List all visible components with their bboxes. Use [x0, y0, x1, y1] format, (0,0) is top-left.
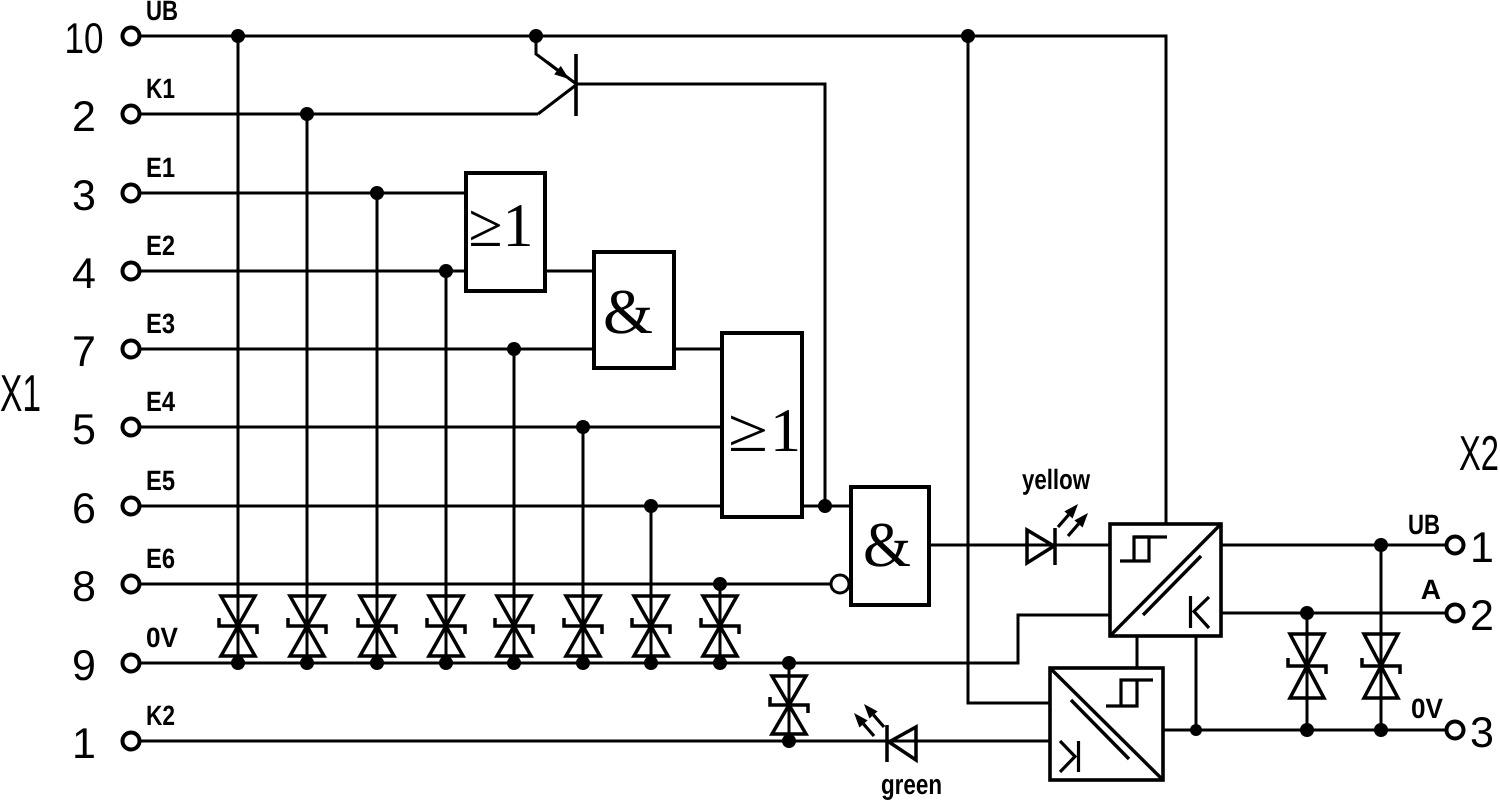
terminal X2-3: [1447, 709, 1494, 757]
junction UB column tap: [231, 29, 245, 43]
terminal X1-7 (pin 7): [72, 328, 139, 376]
svg-text:green: green: [881, 769, 942, 800]
wire column E1 down to suppressor: [376, 193, 379, 663]
wire U1 bottom right to 0V out: [1195, 636, 1198, 730]
OR gate G1 (>=1): [466, 173, 545, 291]
svg-text:E5: E5: [146, 465, 175, 496]
wire E1 (pin3 to G1): [140, 192, 466, 195]
terminal X1-10 (pin 10): [65, 15, 140, 63]
junction D10 top at A line: [1300, 606, 1314, 620]
junction D9 top at 0V: [782, 656, 796, 670]
wire column E3 down to suppressor: [513, 349, 516, 663]
svg-text:yellow: yellow: [1022, 464, 1090, 495]
suppressor diode D9 (0V to K2): [770, 676, 808, 734]
suppressor diode D7 (E5 to 0V): [632, 596, 670, 656]
terminal X1-1 (pin 1): [72, 720, 139, 768]
svg-text:E4: E4: [146, 386, 175, 417]
junction D10 bottom at 0V: [1300, 723, 1314, 737]
junction UB line A tap: [961, 29, 975, 43]
junction D8 at 0V rail: [713, 656, 727, 670]
wire Q1 base to gate G3 output: [576, 84, 825, 506]
svg-text:&: &: [603, 276, 653, 347]
terminal X1-5 (pin 5): [72, 406, 139, 454]
junction D9 bottom at K2: [782, 734, 796, 748]
svg-text:10: 10: [65, 15, 104, 63]
junction E3 column tap: [507, 342, 521, 356]
LED yellow: [1027, 504, 1088, 565]
svg-text:2: 2: [1470, 592, 1494, 640]
svg-text:6: 6: [72, 485, 96, 533]
junction K1 column tap: [300, 107, 314, 121]
wire D10 vertical (A to 0V): [1306, 613, 1309, 730]
terminal X1-6 (pin 6): [72, 485, 139, 533]
wire column E2 down to suppressor: [445, 271, 448, 663]
svg-text:≥1: ≥1: [468, 192, 533, 260]
svg-text:1: 1: [770, 397, 801, 465]
wire 0V rail (pin9 to U1 lower-left input): [140, 615, 1110, 663]
wire E3 (pin7 to G2): [140, 348, 594, 351]
wire G4 output to U1: [929, 544, 1110, 547]
junction D1 at 0V rail: [231, 656, 245, 670]
svg-text:4: 4: [72, 250, 96, 298]
junction E1 column tap: [370, 186, 384, 200]
junction D11 bottom at 0V: [1374, 723, 1388, 737]
wire D9 vertical (0V to K2): [788, 663, 791, 741]
AND gate G2 (&amp;): [594, 252, 674, 368]
junction D6 at 0V rail: [576, 656, 590, 670]
junction D11 top at UB line: [1374, 538, 1388, 552]
terminal X2-2: [1447, 592, 1494, 640]
wire D11 vertical (UB to 0V): [1380, 545, 1383, 730]
svg-text:X2: X2: [1459, 427, 1499, 481]
svg-text:2: 2: [72, 93, 96, 141]
wire E4 (pin5 to G3): [140, 426, 722, 429]
terminal X1-2 (pin 2): [72, 93, 139, 141]
junction E6 column tap: [713, 577, 727, 591]
svg-text:E1: E1: [146, 152, 175, 183]
junction D2 at 0V rail: [300, 656, 314, 670]
svg-text:3: 3: [1470, 709, 1494, 757]
terminal X1-4 (pin 4): [72, 250, 139, 298]
svg-text:&: &: [863, 509, 911, 580]
svg-text:7: 7: [72, 328, 96, 376]
coupler U1 (Schmitt trigger driver): [1110, 524, 1221, 636]
wire G1 output to G2: [545, 270, 594, 273]
terminal X1-9 (pin 9): [72, 642, 139, 690]
wire U1 out UB to X2-1: [1221, 544, 1447, 547]
suppressor diode D2 (K1 to 0V): [288, 596, 326, 656]
junction D4 at 0V rail: [439, 656, 453, 670]
wire column E6 down to suppressor: [719, 584, 722, 663]
wire 0V out (U2 to X2-3): [1163, 729, 1447, 732]
svg-text:≥: ≥: [728, 397, 768, 465]
svg-text:0V: 0V: [146, 622, 178, 653]
svg-text:5: 5: [72, 406, 96, 454]
wire E2 (pin4 to G1): [140, 270, 466, 273]
wire U1 bottom to U2 top: [1136, 636, 1139, 668]
wire U1 out A to X2-2: [1221, 612, 1447, 615]
transistor Q1 (PNP): [536, 36, 576, 116]
svg-text:UB: UB: [1408, 509, 1440, 540]
coupler U2 (Schmitt trigger driver, green channel): [1050, 668, 1163, 780]
suppressor diode D6 (E4 to 0V): [564, 596, 602, 656]
suppressor diode D8 (E6 to 0V): [701, 596, 739, 656]
junction 0V out at U1 drop: [1190, 724, 1202, 736]
LED green: [854, 704, 916, 762]
wire UB branch down to U2 (line A): [968, 36, 1050, 703]
svg-text:K2: K2: [146, 700, 175, 731]
svg-text:1: 1: [1470, 524, 1494, 572]
wire UB rail (pin10 to U1 top, corner at x=1166): [140, 36, 1166, 524]
junction E4 column tap: [576, 420, 590, 434]
junction D5 at 0V rail: [507, 656, 521, 670]
svg-text:E3: E3: [146, 308, 175, 339]
svg-text:X1: X1: [0, 365, 41, 423]
wire E6 (pin8 to G4 bubble): [140, 583, 831, 586]
svg-text:0V: 0V: [1411, 693, 1443, 724]
wire G3 output to G4: [801, 505, 851, 508]
wire K2 (pin1 to U2): [140, 740, 1050, 743]
wire column UB down to suppressor: [237, 36, 240, 663]
svg-text:K1: K1: [146, 73, 175, 104]
terminal X1-8 (pin 8): [72, 563, 139, 611]
svg-text:A: A: [1421, 574, 1441, 605]
wire G2 output to G3: [674, 348, 722, 351]
svg-text:1: 1: [72, 720, 96, 768]
junction D7 at 0V rail: [644, 656, 658, 670]
OR gate G3 (>=1): [722, 333, 802, 517]
wire E5 (pin6 to G3): [140, 505, 722, 508]
wire column K1 down to suppressor: [306, 114, 309, 663]
inverter bubble at G4 input E6: [831, 575, 849, 593]
wire column E4 down to suppressor: [582, 427, 585, 663]
suppressor diode D1 (UB to 0V): [219, 596, 257, 656]
AND gate G4 (&amp;): [851, 487, 929, 605]
junction UB at Q1 emitter: [529, 29, 543, 43]
suppressor diode D5 (E3 to 0V): [495, 596, 533, 656]
suppressor diode D4 (E2 to 0V): [427, 596, 465, 656]
svg-text:8: 8: [72, 563, 96, 611]
suppressor diode D11 (UB to 0V): [1362, 634, 1400, 698]
terminal X1-3 (pin 3): [72, 172, 139, 220]
svg-text:9: 9: [72, 642, 96, 690]
svg-text:UB: UB: [146, 0, 178, 26]
suppressor diode D3 (E1 to 0V): [358, 596, 396, 656]
svg-text:E2: E2: [146, 230, 175, 261]
junction E5 column tap: [644, 499, 658, 513]
junction D3 at 0V rail: [370, 656, 384, 670]
wire column E5 down to suppressor: [650, 506, 653, 663]
terminal X2-1: [1447, 524, 1494, 572]
junction E2 column tap: [439, 264, 453, 278]
svg-text:3: 3: [72, 172, 96, 220]
svg-text:E6: E6: [146, 543, 175, 574]
suppressor diode D10 (A to 0V): [1288, 634, 1326, 698]
wire K1 (pin2 to Q1 collector): [140, 113, 538, 116]
junction G3 output / Q1 base tap: [818, 499, 832, 513]
